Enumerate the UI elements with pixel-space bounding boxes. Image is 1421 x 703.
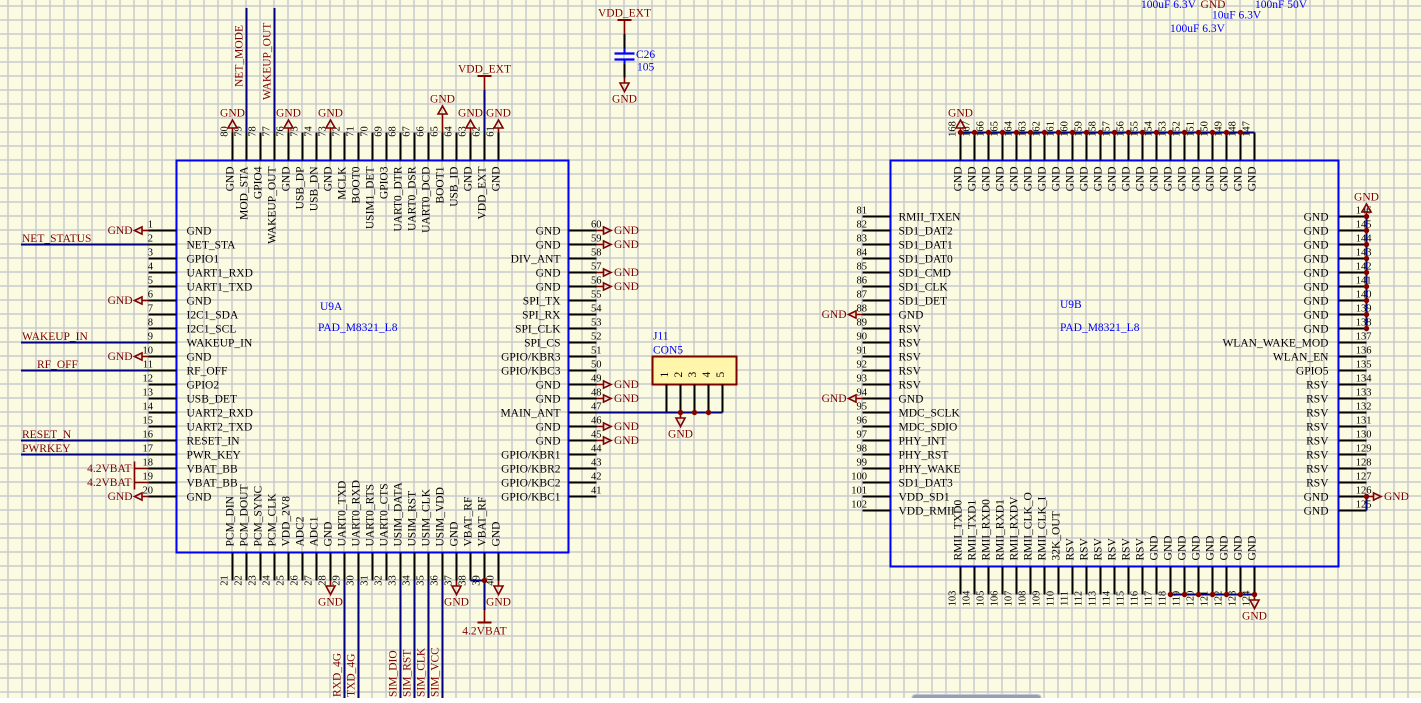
svg-text:69: 69: [374, 126, 385, 137]
svg-text:49: 49: [591, 374, 602, 385]
svg-text:UART0_DTR: UART0_DTR: [393, 166, 405, 231]
svg-text:GND: GND: [486, 108, 511, 120]
svg-text:WAKEUP_OUT: WAKEUP_OUT: [267, 167, 279, 244]
svg-text:4.2VBAT: 4.2VBAT: [87, 477, 131, 489]
IC U9A body: [177, 161, 569, 553]
svg-text:51: 51: [591, 346, 602, 357]
svg-text:155: 155: [1130, 121, 1141, 137]
svg-text:127: 127: [1356, 472, 1372, 483]
svg-text:GND: GND: [536, 240, 561, 252]
svg-text:GPIO/KBR1: GPIO/KBR1: [501, 450, 561, 462]
svg-text:12: 12: [143, 374, 154, 385]
power port 4.2VBAT pin 19: [87, 476, 148, 490]
svg-text:SIM_DIO: SIM_DIO: [388, 650, 400, 697]
svg-text:161: 161: [1046, 121, 1057, 137]
svg-text:USB_DP: USB_DP: [295, 167, 307, 210]
svg-text:86: 86: [857, 276, 868, 287]
svg-text:100: 100: [851, 472, 867, 483]
svg-text:RXD_4G: RXD_4G: [332, 653, 344, 697]
svg-text:GND: GND: [1107, 167, 1119, 192]
svg-text:GND: GND: [1304, 226, 1329, 238]
designator C26: [636, 49, 655, 61]
svg-text:44: 44: [591, 444, 602, 455]
svg-text:GND: GND: [463, 167, 475, 192]
svg-text:GND: GND: [536, 436, 561, 448]
wire SIM_VCC (pin 36): [442, 581, 444, 699]
svg-text:97: 97: [857, 430, 868, 441]
svg-text:124: 124: [1242, 590, 1253, 607]
svg-text:U9B: U9B: [1060, 299, 1082, 311]
ground pin 61 (U9A): [486, 108, 511, 133]
svg-text:WAKEUP_IN: WAKEUP_IN: [187, 338, 253, 350]
svg-text:GND: GND: [1247, 167, 1259, 192]
net label WAKEUP_IN: [22, 331, 88, 343]
svg-text:109: 109: [1032, 591, 1043, 607]
wire GND bus right of U9B pins 146-138: [1366, 217, 1368, 329]
svg-text:101: 101: [851, 486, 867, 497]
value PAD_M8321_L8 (U9B): [1060, 322, 1140, 334]
svg-text:VDD_EXT: VDD_EXT: [598, 8, 651, 20]
svg-text:11: 11: [143, 360, 153, 371]
svg-text:99: 99: [857, 458, 868, 469]
svg-text:SPI_CS: SPI_CS: [524, 338, 560, 350]
svg-text:GND: GND: [1384, 491, 1409, 503]
svg-text:PHY_INT: PHY_INT: [899, 436, 947, 448]
svg-text:PWRKEY: PWRKEY: [22, 443, 71, 455]
svg-text:RSV: RSV: [899, 352, 922, 364]
svg-text:MOD_STA: MOD_STA: [239, 166, 251, 220]
wire NET_MODE (pin 79): [246, 8, 248, 133]
svg-text:GPIO/KBR2: GPIO/KBR2: [501, 464, 561, 476]
svg-text:10uF 6.3V: 10uF 6.3V: [1212, 10, 1262, 22]
svg-text:GND: GND: [822, 309, 847, 321]
svg-text:UART0_RTS: UART0_RTS: [365, 484, 377, 547]
ground pin 28 (U9A): [318, 581, 343, 609]
svg-text:GND: GND: [323, 167, 335, 192]
connector J11 body: [653, 357, 737, 385]
svg-text:USIM1_DET: USIM1_DET: [365, 167, 377, 230]
svg-text:GND: GND: [108, 491, 133, 503]
ground pin 37 (U9A): [444, 581, 469, 609]
wire RF_OFF: [21, 370, 149, 372]
svg-text:2: 2: [148, 234, 153, 245]
svg-text:41: 41: [591, 486, 602, 497]
value label 100uF 6.3V (third row): [1170, 23, 1226, 35]
svg-text:SPI_TX: SPI_TX: [523, 296, 561, 308]
svg-text:19: 19: [143, 472, 154, 483]
svg-text:100nF 50V: 100nF 50V: [1255, 0, 1308, 11]
svg-text:34: 34: [402, 575, 413, 586]
svg-text:GND: GND: [1177, 536, 1189, 561]
svg-text:USIM_VDD: USIM_VDD: [435, 487, 447, 546]
svg-text:GND: GND: [1304, 310, 1329, 322]
svg-text:150: 150: [1200, 121, 1211, 137]
svg-text:6: 6: [148, 290, 153, 301]
svg-text:U9A: U9A: [320, 301, 343, 313]
svg-text:GND: GND: [1304, 296, 1329, 308]
svg-text:BOOT1: BOOT1: [435, 166, 447, 203]
svg-text:22: 22: [234, 575, 245, 586]
svg-text:87: 87: [857, 290, 868, 301]
svg-text:24: 24: [262, 575, 273, 586]
svg-text:PAD_M8321_L8: PAD_M8321_L8: [1060, 322, 1140, 334]
svg-text:38: 38: [458, 575, 469, 586]
svg-text:31: 31: [360, 575, 371, 586]
svg-text:111: 111: [1060, 591, 1071, 606]
svg-text:GND: GND: [1065, 167, 1077, 192]
svg-text:GND: GND: [276, 108, 301, 120]
svg-text:121: 121: [1200, 591, 1211, 607]
ground pin 60 (U9A): [597, 225, 639, 237]
U9B right pins 146-125: [1222, 206, 1372, 518]
svg-text:ADC2: ADC2: [295, 516, 307, 546]
svg-text:33: 33: [388, 575, 399, 586]
svg-text:PHY_RST: PHY_RST: [899, 450, 949, 462]
svg-text:GND: GND: [614, 267, 639, 279]
svg-text:GND: GND: [614, 379, 639, 391]
svg-text:30: 30: [346, 575, 357, 586]
svg-text:149: 149: [1214, 121, 1225, 137]
svg-text:92: 92: [857, 360, 868, 371]
svg-text:88: 88: [857, 304, 868, 315]
svg-text:RSV: RSV: [1121, 537, 1133, 560]
svg-text:PCM_DOUT: PCM_DOUT: [239, 485, 251, 547]
svg-text:133: 133: [1356, 388, 1372, 399]
svg-text:GND: GND: [1037, 167, 1049, 192]
svg-text:138: 138: [1356, 318, 1372, 329]
svg-text:GND: GND: [108, 225, 133, 237]
svg-text:RMII_TXEN: RMII_TXEN: [899, 212, 962, 224]
svg-text:GND: GND: [536, 380, 561, 392]
svg-text:GND: GND: [1163, 167, 1175, 192]
svg-text:82: 82: [857, 220, 868, 231]
svg-text:GND: GND: [1121, 167, 1133, 192]
svg-text:64: 64: [444, 126, 455, 137]
svg-text:RSV: RSV: [1306, 478, 1329, 490]
svg-text:96: 96: [857, 416, 868, 427]
svg-text:GND: GND: [822, 393, 847, 405]
svg-text:GND: GND: [1177, 167, 1189, 192]
svg-text:NET_STA: NET_STA: [187, 240, 237, 252]
svg-text:94: 94: [857, 388, 868, 399]
svg-text:GND: GND: [1304, 212, 1329, 224]
svg-text:137: 137: [1356, 332, 1372, 343]
svg-text:SD1_DAT3: SD1_DAT3: [899, 478, 954, 490]
J11 pins 1-5: [659, 372, 727, 413]
svg-text:SPI_RX: SPI_RX: [522, 310, 561, 322]
svg-text:122: 122: [1214, 591, 1225, 607]
svg-text:156: 156: [1116, 121, 1127, 137]
svg-text:GND: GND: [1233, 536, 1245, 561]
svg-text:GND: GND: [981, 167, 993, 192]
svg-text:4.2VBAT: 4.2VBAT: [87, 463, 131, 475]
svg-text:PWR_KEY: PWR_KEY: [187, 450, 242, 462]
junctions U9B right pins 146-138: [1364, 214, 1369, 331]
wire SIM_DIO (pin 33): [400, 581, 402, 699]
svg-text:SIM_CLK: SIM_CLK: [416, 647, 428, 697]
svg-text:85: 85: [857, 262, 868, 273]
svg-text:144: 144: [1356, 234, 1373, 245]
svg-text:68: 68: [388, 126, 399, 137]
ground below J11: [668, 413, 693, 441]
svg-text:GND: GND: [1304, 492, 1329, 504]
ground label (top row): [1201, 0, 1226, 11]
svg-text:105: 105: [637, 62, 655, 74]
svg-text:VBAT_RF: VBAT_RF: [477, 497, 489, 547]
svg-text:143: 143: [1356, 248, 1372, 259]
svg-text:48: 48: [591, 388, 602, 399]
svg-text:UART1_TXD: UART1_TXD: [187, 282, 253, 294]
svg-text:SD1_CLK: SD1_CLK: [899, 282, 949, 294]
designator U9B: [1060, 299, 1082, 311]
net label SIM_VCC: [430, 647, 442, 697]
svg-text:46: 46: [591, 416, 602, 427]
svg-text:159: 159: [1074, 121, 1085, 137]
net label NET_MODE: [234, 25, 246, 87]
svg-text:RMII_RXDV: RMII_RXDV: [1009, 496, 1021, 561]
svg-text:32K_OUT: 32K_OUT: [1051, 511, 1063, 560]
svg-text:CON5: CON5: [653, 345, 683, 357]
svg-text:PAD_M8321_L8: PAD_M8321_L8: [318, 322, 398, 334]
value PAD_M8321_L8 (U9A): [318, 322, 398, 334]
svg-text:GND: GND: [449, 522, 461, 547]
power port 4.2VBAT (bottom): [462, 610, 506, 638]
svg-text:UART0_CTS: UART0_CTS: [379, 483, 391, 546]
ground below U9B pin 124: [1242, 595, 1267, 623]
svg-text:140: 140: [1356, 290, 1372, 301]
svg-text:153: 153: [1158, 121, 1169, 137]
svg-text:100uF 6.3V: 100uF 6.3V: [1170, 23, 1226, 35]
svg-text:GND: GND: [1009, 167, 1021, 192]
svg-text:125: 125: [1356, 500, 1372, 511]
svg-text:VDD_EXT: VDD_EXT: [458, 64, 511, 76]
svg-text:VDD_EXT: VDD_EXT: [477, 167, 489, 220]
svg-text:95: 95: [857, 402, 868, 413]
svg-text:147: 147: [1242, 121, 1253, 137]
svg-text:1: 1: [148, 220, 153, 231]
svg-text:GND: GND: [187, 296, 212, 308]
junction J11 pin 3: [692, 410, 697, 415]
svg-text:VBAT_BB: VBAT_BB: [187, 464, 238, 476]
svg-text:29: 29: [332, 575, 343, 586]
svg-text:GPIO/KBC3: GPIO/KBC3: [501, 366, 561, 378]
svg-text:NET_MODE: NET_MODE: [234, 25, 246, 87]
svg-text:UART2_RXD: UART2_RXD: [187, 408, 253, 420]
svg-text:66: 66: [416, 126, 427, 137]
svg-text:GND: GND: [1304, 324, 1329, 336]
svg-text:131: 131: [1356, 416, 1372, 427]
svg-text:GND: GND: [430, 94, 455, 106]
svg-text:53: 53: [591, 318, 602, 329]
U9B top pins 168-147 (all GND): [948, 120, 1259, 191]
svg-text:151: 151: [1186, 121, 1197, 137]
svg-text:VDD_RMII: VDD_RMII: [899, 506, 955, 518]
svg-text:10: 10: [143, 346, 154, 357]
svg-text:158: 158: [1088, 121, 1099, 137]
svg-text:GND: GND: [187, 352, 212, 364]
svg-text:71: 71: [346, 126, 357, 137]
ground above U9B pin 168: [948, 108, 973, 133]
svg-text:RESET_IN: RESET_IN: [187, 436, 241, 448]
svg-text:GPIO/KBC2: GPIO/KBC2: [501, 478, 561, 490]
svg-text:UART2_TXD: UART2_TXD: [187, 422, 253, 434]
svg-text:USB_DN: USB_DN: [309, 166, 321, 211]
svg-text:SD1_DAT0: SD1_DAT0: [899, 254, 954, 266]
wire VBAT_RF pins 38-39: [471, 581, 485, 611]
svg-text:47: 47: [591, 402, 602, 413]
svg-text:129: 129: [1356, 444, 1372, 455]
wire NET_STATUS: [21, 244, 149, 246]
svg-text:GND: GND: [1219, 167, 1231, 192]
svg-text:160: 160: [1060, 121, 1071, 137]
svg-text:5: 5: [715, 372, 727, 378]
ground pin 20 (U9A): [108, 491, 149, 503]
svg-text:GND: GND: [1205, 167, 1217, 192]
net label RXD_4G: [332, 653, 344, 697]
svg-text:164: 164: [1004, 120, 1015, 137]
svg-text:118: 118: [1158, 591, 1169, 606]
wire VDD_EXT to pin 62: [484, 90, 486, 133]
svg-text:SD1_CMD: SD1_CMD: [899, 268, 951, 280]
ground pin 46 (U9A): [597, 421, 639, 433]
svg-text:110: 110: [1046, 591, 1057, 606]
svg-text:139: 139: [1356, 304, 1372, 315]
svg-text:16: 16: [143, 430, 154, 441]
svg-text:RF_OFF: RF_OFF: [187, 366, 228, 378]
svg-text:GND: GND: [1304, 268, 1329, 280]
svg-text:MDC_SDIO: MDC_SDIO: [899, 422, 958, 434]
svg-text:RF_OFF: RF_OFF: [37, 359, 78, 371]
svg-text:MDC_SCLK: MDC_SCLK: [899, 408, 961, 420]
svg-text:58: 58: [591, 248, 602, 259]
svg-text:UART1_RXD: UART1_RXD: [187, 268, 253, 280]
svg-text:56: 56: [591, 276, 602, 287]
svg-text:157: 157: [1102, 121, 1113, 137]
U9B bottom pins 103-124: [948, 492, 1259, 606]
svg-text:VBAT_RF: VBAT_RF: [463, 497, 475, 547]
svg-text:GND: GND: [1023, 167, 1035, 192]
svg-text:GND: GND: [1093, 167, 1105, 192]
svg-text:GND: GND: [948, 108, 973, 120]
svg-text:134: 134: [1356, 374, 1373, 385]
svg-text:GND: GND: [108, 295, 133, 307]
ground pin 6 (U9A): [108, 295, 149, 307]
IC U9B body: [891, 161, 1339, 567]
svg-text:98: 98: [857, 444, 868, 455]
power port VDD_EXT pin 62: [458, 64, 511, 91]
svg-text:113: 113: [1088, 591, 1099, 606]
svg-text:GND: GND: [486, 597, 511, 609]
svg-text:136: 136: [1356, 346, 1372, 357]
svg-text:GND: GND: [1079, 167, 1091, 192]
svg-text:GPIO/KBC1: GPIO/KBC1: [501, 492, 561, 504]
designator U9A: [320, 301, 343, 313]
value CON5 (J11): [653, 345, 683, 357]
svg-text:PCM_DIN: PCM_DIN: [225, 495, 237, 546]
svg-text:14: 14: [143, 402, 154, 413]
svg-text:70: 70: [360, 126, 371, 137]
svg-text:J11: J11: [653, 331, 669, 343]
svg-text:ADC1: ADC1: [309, 516, 321, 546]
svg-text:107: 107: [1004, 591, 1015, 607]
svg-text:GND: GND: [1304, 506, 1329, 518]
svg-text:GND: GND: [458, 108, 483, 120]
net label WAKEUP_OUT: [262, 23, 274, 100]
svg-text:GND: GND: [225, 167, 237, 192]
wire TXD_4G (pin 30): [358, 581, 360, 699]
svg-text:GND: GND: [1051, 167, 1063, 192]
wire U9B pins 126-125 GND: [1366, 497, 1368, 511]
svg-text:C26: C26: [636, 49, 655, 61]
svg-text:142: 142: [1356, 262, 1372, 273]
svg-text:MAIN_ANT: MAIN_ANT: [500, 408, 560, 420]
svg-text:TXD_4G: TXD_4G: [346, 654, 358, 697]
svg-text:GND: GND: [536, 282, 561, 294]
svg-text:GND: GND: [323, 522, 335, 547]
svg-text:RSV: RSV: [1306, 408, 1329, 420]
svg-text:GND: GND: [1304, 282, 1329, 294]
svg-text:GPIO1: GPIO1: [187, 254, 220, 266]
svg-text:USB_DET: USB_DET: [187, 394, 237, 406]
svg-text:102: 102: [851, 500, 867, 511]
svg-text:77: 77: [262, 126, 273, 137]
ground pin 73 (U9A): [318, 108, 343, 133]
capacitor C26: [615, 34, 635, 78]
svg-text:GND: GND: [281, 167, 293, 192]
svg-text:90: 90: [857, 332, 868, 343]
net label SIM_CLK: [416, 647, 428, 697]
svg-text:GND: GND: [187, 226, 212, 238]
svg-text:RSV: RSV: [1306, 422, 1329, 434]
svg-text:117: 117: [1144, 591, 1155, 606]
svg-text:27: 27: [304, 575, 315, 586]
svg-text:RSV: RSV: [1093, 537, 1105, 560]
svg-text:135: 135: [1356, 360, 1372, 371]
svg-text:145: 145: [1356, 220, 1372, 231]
svg-text:GND: GND: [668, 429, 693, 441]
svg-text:GND: GND: [1242, 611, 1267, 623]
wire GND bus below U9B pins 118-124: [1171, 594, 1255, 596]
ground below C26: [612, 78, 637, 106]
value label 100uF 6.3V (top row): [1141, 0, 1197, 11]
svg-text:GND: GND: [1247, 536, 1259, 561]
svg-text:GND: GND: [614, 393, 639, 405]
svg-text:132: 132: [1356, 402, 1372, 413]
svg-text:3: 3: [687, 372, 699, 378]
svg-text:SD1_DET: SD1_DET: [899, 296, 948, 308]
svg-text:GPIO4: GPIO4: [253, 166, 265, 199]
svg-text:21: 21: [220, 575, 231, 586]
svg-text:8: 8: [148, 318, 153, 329]
U9A bottom pins 21-40: [220, 480, 503, 586]
svg-text:100uF 6.3V: 100uF 6.3V: [1141, 0, 1197, 11]
svg-text:108: 108: [1018, 591, 1029, 607]
wire GND bus above U9B top pins: [961, 132, 1255, 134]
svg-text:RSV: RSV: [1135, 537, 1147, 560]
svg-text:GND: GND: [614, 435, 639, 447]
svg-text:114: 114: [1102, 590, 1113, 606]
svg-text:91: 91: [857, 346, 868, 357]
svg-text:1: 1: [659, 372, 671, 378]
svg-text:RSV: RSV: [1065, 537, 1077, 560]
svg-text:UART0_TXD: UART0_TXD: [337, 481, 349, 547]
svg-text:130: 130: [1356, 430, 1372, 441]
svg-text:37: 37: [444, 575, 455, 586]
svg-text:GPIO2: GPIO2: [187, 380, 220, 392]
svg-text:UART0_DCD: UART0_DCD: [421, 167, 433, 233]
svg-text:GPIO5: GPIO5: [1296, 366, 1329, 378]
svg-text:148: 148: [1228, 121, 1239, 137]
